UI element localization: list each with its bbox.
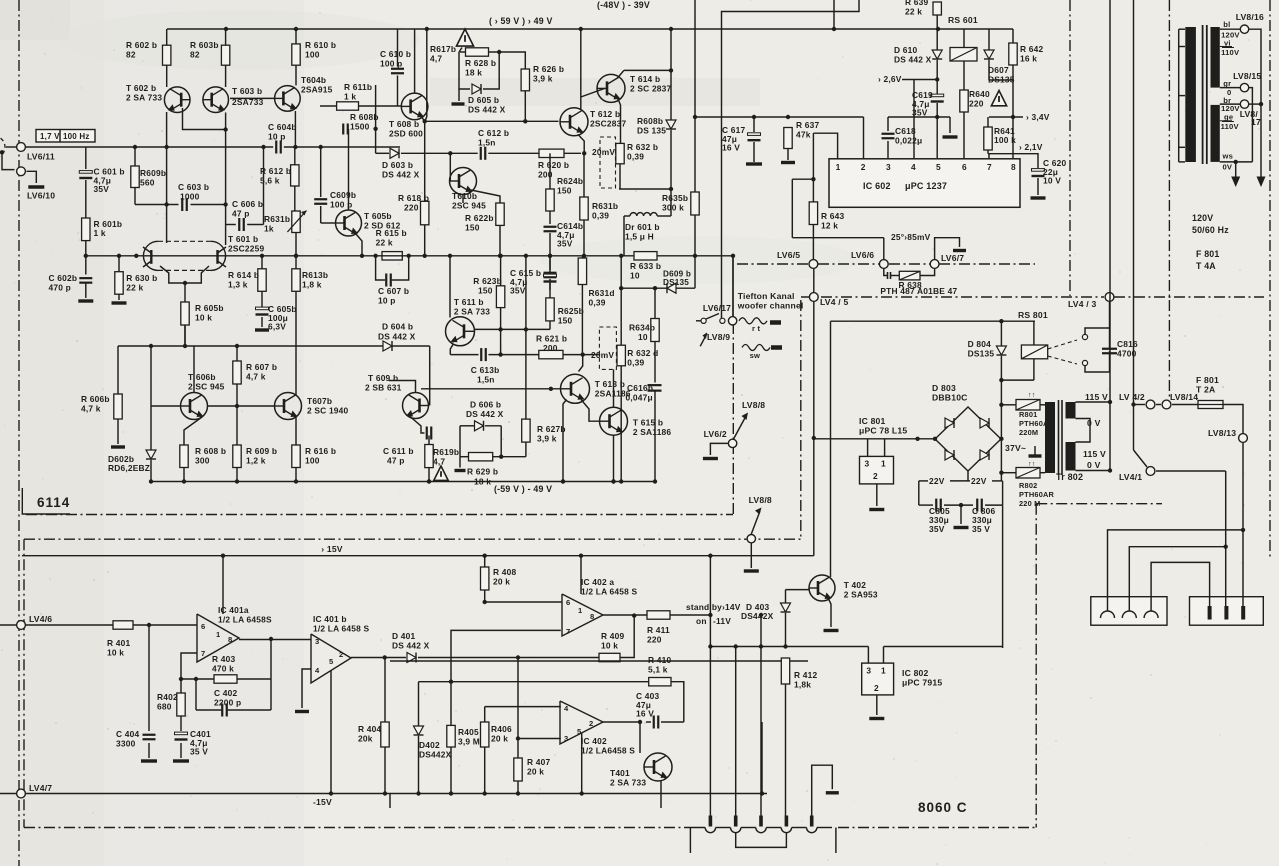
svg-text:T 602 b: T 602 b: [126, 83, 156, 93]
svg-text:110V: 110V: [1221, 122, 1240, 131]
svg-text:R 603b: R 603b: [190, 40, 219, 50]
svg-text:R 609 b: R 609 b: [246, 446, 277, 456]
svg-text:D 804: D 804: [968, 339, 991, 349]
svg-text:r t: r t: [752, 324, 760, 333]
svg-text:› 2,6V: › 2,6V: [878, 74, 902, 84]
svg-text:8: 8: [1011, 162, 1016, 172]
svg-text:T 615 b: T 615 b: [633, 418, 663, 428]
svg-text:R 628 b: R 628 b: [465, 58, 496, 68]
svg-text:2 SA 733: 2 SA 733: [610, 778, 646, 788]
svg-text:5,1 k: 5,1 k: [648, 665, 668, 675]
svg-text:680: 680: [157, 702, 172, 712]
svg-text:DBB10C: DBB10C: [932, 393, 968, 403]
svg-text:stand by›14V: stand by›14V: [686, 602, 741, 612]
svg-text:R 615 b: R 615 b: [376, 228, 407, 238]
svg-text:22V: 22V: [971, 476, 987, 486]
svg-text:1,8 k: 1,8 k: [302, 280, 322, 290]
svg-text:3: 3: [564, 734, 568, 743]
svg-text:R 623b: R 623b: [473, 276, 502, 286]
svg-text:220 M: 220 M: [1019, 499, 1041, 508]
svg-text:R625b: R625b: [558, 306, 584, 316]
svg-text:10 p: 10 p: [378, 296, 396, 306]
svg-text:RS 801: RS 801: [1018, 310, 1048, 320]
svg-text:300: 300: [195, 456, 210, 466]
svg-text:R 614 b: R 614 b: [228, 270, 259, 280]
svg-text:6: 6: [962, 162, 967, 172]
svg-text:F 801: F 801: [1196, 375, 1219, 385]
svg-text:2: 2: [589, 719, 593, 728]
svg-text:C 602b: C 602b: [49, 273, 78, 283]
svg-text:bl: bl: [1223, 20, 1230, 29]
svg-text:T 606b: T 606b: [188, 372, 216, 382]
svg-text:› 3,4V: › 3,4V: [1026, 112, 1050, 122]
svg-text:R 410: R 410: [648, 655, 671, 665]
svg-text:DS 442 X: DS 442 X: [466, 409, 504, 419]
svg-text:( › 59 V ) › 49 V: ( › 59 V ) › 49 V: [489, 16, 553, 26]
svg-text:2: 2: [873, 471, 878, 481]
svg-text:LV 4/2: LV 4/2: [1119, 392, 1145, 402]
svg-text:115 V: 115 V: [1083, 449, 1106, 459]
svg-text:LV8/14: LV8/14: [1170, 392, 1198, 402]
svg-text:R640: R640: [969, 89, 990, 99]
svg-text:C616b: C616b: [627, 383, 653, 393]
svg-text:C 611 b: C 611 b: [383, 446, 414, 456]
svg-text:R 610 b: R 610 b: [305, 40, 336, 50]
svg-text:R 404: R 404: [358, 724, 381, 734]
svg-text:2SA915: 2SA915: [301, 85, 333, 95]
svg-text:10 p: 10 p: [268, 132, 286, 142]
svg-text:82: 82: [126, 50, 136, 60]
svg-text:R 412: R 412: [794, 670, 817, 680]
svg-text:R613b: R613b: [302, 270, 328, 280]
svg-text:C 607 b: C 607 b: [378, 286, 409, 296]
svg-text:-11V: -11V: [713, 616, 731, 626]
svg-text:50/60 Hz: 50/60 Hz: [1192, 225, 1229, 235]
svg-text:1000: 1000: [180, 192, 200, 202]
svg-text:R 608 b: R 608 b: [195, 446, 226, 456]
svg-text:T610b: T610b: [452, 191, 477, 201]
svg-text:1/2 LA 6458S: 1/2 LA 6458S: [218, 615, 272, 625]
svg-text:0,39: 0,39: [627, 358, 644, 368]
svg-text:470 p: 470 p: [49, 283, 71, 293]
svg-text:T401: T401: [610, 768, 630, 778]
svg-text:R608b: R608b: [637, 116, 663, 126]
svg-text:LV8/15: LV8/15: [1233, 71, 1261, 81]
svg-text:1500: 1500: [350, 122, 370, 132]
svg-text:woofer channel: woofer channel: [737, 301, 804, 311]
svg-text:3,9 M: 3,9 M: [458, 737, 480, 747]
svg-text:22 k: 22 k: [376, 238, 393, 248]
svg-text:D 606 b: D 606 b: [470, 400, 501, 410]
svg-text:220: 220: [404, 203, 419, 213]
svg-text:F 801: F 801: [1196, 249, 1220, 259]
svg-text:IC 402 a: IC 402 a: [581, 577, 614, 587]
svg-text:10 k: 10 k: [601, 641, 618, 651]
svg-text:R 626 b: R 626 b: [533, 64, 564, 74]
svg-text:-15V: -15V: [313, 797, 332, 807]
svg-text:R631b: R631b: [592, 201, 618, 211]
svg-text:22 k: 22 k: [905, 7, 922, 17]
svg-text:R 633 b: R 633 b: [630, 261, 661, 271]
svg-text:LV8/8: LV8/8: [742, 400, 765, 410]
svg-text:R 612 b: R 612 b: [260, 166, 291, 176]
svg-text:μPC 78 L15: μPC 78 L15: [859, 426, 907, 436]
svg-text:DS442X: DS442X: [741, 611, 774, 621]
svg-text:1,8k: 1,8k: [794, 680, 811, 690]
svg-text:3300: 3300: [116, 739, 136, 749]
svg-text:LV6/6: LV6/6: [851, 250, 874, 260]
svg-text:D 604 b: D 604 b: [382, 322, 413, 332]
svg-text:37V~: 37V~: [1005, 443, 1026, 453]
svg-text:DS442X: DS442X: [419, 750, 452, 760]
svg-text:22V: 22V: [929, 476, 945, 486]
svg-text:4,7: 4,7: [433, 457, 445, 467]
svg-text:5: 5: [329, 657, 334, 666]
svg-text:20mV: 20mV: [591, 350, 614, 360]
svg-text:4,7 k: 4,7 k: [246, 372, 266, 382]
svg-text:8: 8: [590, 612, 594, 621]
svg-text:2 SC 2837: 2 SC 2837: [630, 84, 672, 94]
svg-text:D 803: D 803: [932, 383, 956, 393]
svg-text:150: 150: [558, 316, 573, 326]
svg-text:115 V: 115 V: [1085, 392, 1108, 402]
svg-text:4: 4: [315, 666, 320, 675]
svg-text:R406: R406: [491, 724, 512, 734]
svg-text:1,3 k: 1,3 k: [228, 280, 248, 290]
svg-text:R 643: R 643: [821, 211, 844, 221]
svg-text:LV8/8: LV8/8: [749, 495, 772, 505]
svg-text:1,5n: 1,5n: [477, 375, 495, 385]
svg-text:1: 1: [836, 162, 841, 172]
svg-text:LV4 / 5: LV4 / 5: [820, 297, 848, 307]
svg-text:8060 C: 8060 C: [918, 800, 968, 815]
svg-text:1,5 μ H: 1,5 μ H: [625, 232, 654, 242]
svg-text:22 k: 22 k: [126, 283, 143, 293]
svg-text:0,39: 0,39: [627, 152, 644, 162]
svg-text:2: 2: [874, 683, 879, 693]
svg-text:LV8/13: LV8/13: [1208, 428, 1236, 438]
svg-text:R 637: R 637: [796, 120, 819, 130]
svg-text:D 401: D 401: [392, 631, 415, 641]
svg-text:T 603 b: T 603 b: [232, 86, 262, 96]
svg-text:2SD 600: 2SD 600: [389, 129, 423, 139]
svg-text:4: 4: [564, 704, 569, 713]
svg-text:7: 7: [201, 649, 205, 658]
svg-text:R 605b: R 605b: [195, 303, 224, 313]
svg-text:560: 560: [140, 178, 155, 188]
svg-text:0V: 0V: [1223, 163, 1233, 172]
svg-text:R 407: R 407: [527, 757, 550, 767]
svg-text:35V: 35V: [912, 108, 928, 118]
svg-text:› 2,1V: › 2,1V: [1019, 142, 1043, 152]
svg-text:› 15V: › 15V: [321, 544, 343, 554]
svg-text:LV4/6: LV4/6: [29, 614, 52, 624]
svg-text:47 p: 47 p: [232, 209, 250, 219]
svg-text:DS135: DS135: [968, 349, 995, 359]
svg-text:150: 150: [478, 286, 493, 296]
svg-text:IC 801: IC 801: [859, 416, 886, 426]
svg-text:DS135: DS135: [988, 75, 1015, 85]
svg-text:R635b: R635b: [662, 193, 688, 203]
svg-text:T 4A: T 4A: [1196, 261, 1216, 271]
svg-text:R 620 b: R 620 b: [538, 160, 569, 170]
svg-text:220M: 220M: [1019, 428, 1038, 437]
svg-text:3,9 k: 3,9 k: [537, 434, 557, 444]
svg-text:R 611b: R 611b: [344, 82, 372, 92]
svg-text:10 V: 10 V: [1043, 176, 1061, 186]
svg-text:T 609 b: T 609 b: [368, 373, 398, 383]
svg-text:LV4/7: LV4/7: [29, 783, 52, 793]
svg-text:6,3V: 6,3V: [268, 322, 286, 332]
svg-text:300 k: 300 k: [662, 203, 684, 213]
svg-text:10: 10: [630, 271, 640, 281]
svg-text:IC 802: IC 802: [902, 668, 929, 678]
svg-text:Tr 802: Tr 802: [1056, 472, 1083, 482]
svg-text:2SC2259: 2SC2259: [228, 244, 264, 254]
svg-text:1: 1: [578, 606, 583, 615]
svg-text:on: on: [696, 616, 707, 626]
svg-text:DS135: DS135: [663, 278, 689, 287]
svg-text:6: 6: [566, 598, 570, 607]
svg-text:4: 4: [911, 162, 916, 172]
svg-text:R631d: R631d: [589, 288, 615, 298]
svg-text:1,5n: 1,5n: [478, 138, 496, 148]
svg-text:DS 442 X: DS 442 X: [468, 105, 506, 115]
svg-text:47k: 47k: [796, 130, 811, 140]
svg-text:C816: C816: [1117, 339, 1138, 349]
svg-text:R 401: R 401: [107, 638, 130, 648]
svg-text:17: 17: [1251, 117, 1261, 127]
svg-text:C 612 b: C 612 b: [478, 128, 509, 138]
svg-text:C609b: C609b: [330, 190, 356, 200]
svg-text:16 k: 16 k: [1020, 54, 1037, 64]
svg-text:1: 1: [881, 459, 886, 469]
svg-text:R617b: R617b: [430, 44, 456, 54]
svg-text:220: 220: [647, 635, 662, 645]
svg-text:2 SB 631: 2 SB 631: [365, 383, 402, 393]
svg-text:C 604b: C 604b: [268, 122, 297, 132]
svg-text:LV6/5: LV6/5: [777, 250, 800, 260]
svg-text:220: 220: [969, 99, 984, 109]
svg-text:R 411: R 411: [647, 625, 670, 635]
svg-text:2SC 945: 2SC 945: [452, 201, 486, 211]
svg-text:↑↑: ↑↑: [1028, 461, 1035, 468]
svg-text:20mV: 20mV: [592, 147, 615, 157]
svg-text:μPC 1237: μPC 1237: [905, 181, 947, 191]
svg-text:D402: D402: [419, 740, 440, 750]
svg-text:R405: R405: [458, 727, 479, 737]
svg-text:C 610 b: C 610 b: [380, 49, 411, 59]
svg-text:7: 7: [987, 162, 992, 172]
svg-text:μPC 7915: μPC 7915: [902, 678, 942, 688]
svg-text:35V: 35V: [557, 239, 573, 249]
svg-text:16 V: 16 V: [722, 143, 740, 153]
svg-text:1,2 k: 1,2 k: [246, 456, 266, 466]
svg-text:D 605 b: D 605 b: [468, 95, 499, 105]
svg-text:2: 2: [339, 650, 343, 659]
svg-text:2 SA1186: 2 SA1186: [633, 427, 672, 437]
svg-text:RS 601: RS 601: [948, 15, 978, 25]
svg-text:Tiefton Kanal: Tiefton Kanal: [738, 291, 795, 301]
svg-text:T 611 b: T 611 b: [454, 297, 484, 307]
svg-text:1: 1: [216, 630, 221, 639]
svg-text:1k: 1k: [264, 224, 274, 234]
svg-text:ge: ge: [1224, 113, 1233, 122]
svg-text:100 Hz: 100 Hz: [63, 132, 90, 141]
svg-text:0,39: 0,39: [592, 211, 609, 221]
svg-text:LV6/11: LV6/11: [27, 152, 55, 162]
svg-text:R631b: R631b: [264, 214, 290, 224]
svg-text:D 610: D 610: [894, 45, 917, 55]
svg-text:T 2A: T 2A: [1196, 385, 1215, 395]
svg-text:R 629 b: R 629 b: [467, 467, 498, 477]
svg-text:10 k: 10 k: [107, 648, 124, 658]
svg-text:0,39: 0,39: [589, 298, 606, 308]
svg-text:0 V: 0 V: [1087, 460, 1101, 470]
svg-text:20 k: 20 k: [493, 577, 510, 587]
svg-text:C 606 b: C 606 b: [232, 199, 263, 209]
svg-text:LV8/9: LV8/9: [707, 332, 730, 342]
svg-text:1 k: 1 k: [344, 92, 356, 102]
svg-text:20 k: 20 k: [527, 767, 544, 777]
svg-text:R801: R801: [1019, 410, 1037, 419]
svg-text:120V: 120V: [1192, 213, 1213, 223]
svg-text:LV6/7: LV6/7: [941, 253, 964, 263]
svg-text:IC 401 b: IC 401 b: [313, 614, 347, 624]
svg-text:110V: 110V: [1221, 48, 1240, 57]
svg-text:47 p: 47 p: [387, 456, 405, 466]
svg-text:2 SA 733: 2 SA 733: [126, 93, 162, 103]
svg-text:200: 200: [543, 343, 558, 353]
svg-text:R624b: R624b: [557, 176, 583, 186]
svg-text:PTH 487 A01BE 47: PTH 487 A01BE 47: [880, 286, 957, 296]
svg-text:20k: 20k: [358, 734, 373, 744]
svg-text:100: 100: [305, 50, 320, 60]
svg-text:100: 100: [305, 456, 320, 466]
svg-text:R 642: R 642: [1020, 44, 1043, 54]
svg-text:150: 150: [465, 223, 480, 233]
svg-text:R 632 b: R 632 b: [627, 142, 658, 152]
svg-text:7: 7: [566, 627, 570, 636]
svg-text:1/2 LA 6458 S: 1/2 LA 6458 S: [581, 587, 638, 597]
svg-text:LV6/17: LV6/17: [703, 303, 731, 313]
svg-text:DS 442 X: DS 442 X: [378, 332, 416, 342]
svg-text:6114: 6114: [37, 495, 70, 510]
svg-text:R 632 d: R 632 d: [627, 348, 658, 358]
svg-text:3: 3: [866, 666, 871, 676]
svg-text:2 SA953: 2 SA953: [844, 590, 878, 600]
svg-text:1/2 LA6458 S: 1/2 LA6458 S: [581, 746, 635, 756]
svg-text:5,6 k: 5,6 k: [260, 176, 280, 186]
svg-text:RD6,2EBZ: RD6,2EBZ: [108, 463, 150, 473]
svg-text:4,7: 4,7: [430, 54, 442, 64]
svg-text:ws: ws: [1222, 152, 1234, 161]
svg-text:C 402: C 402: [214, 688, 237, 698]
svg-text:3,9 k: 3,9 k: [533, 74, 553, 84]
svg-text:R 602 b: R 602 b: [126, 40, 157, 50]
svg-text:C 613b: C 613b: [471, 365, 500, 375]
svg-text:1/2 LA 6458 S: 1/2 LA 6458 S: [313, 624, 370, 634]
svg-text:470 k: 470 k: [212, 664, 234, 674]
svg-text:2 SA 733: 2 SA 733: [454, 307, 490, 317]
svg-text:DS 135: DS 135: [637, 126, 666, 136]
svg-text:R 627b: R 627b: [537, 424, 566, 434]
svg-text:T 613 b: T 613 b: [595, 379, 625, 389]
svg-text:LV6/2: LV6/2: [704, 429, 727, 439]
svg-text:10 k: 10 k: [195, 313, 212, 323]
svg-text:35V: 35V: [929, 524, 945, 534]
svg-text:82: 82: [190, 50, 200, 60]
svg-text:D 603 b: D 603 b: [382, 160, 413, 170]
svg-text:T 608 b: T 608 b: [389, 119, 419, 129]
svg-text:gr: gr: [1223, 79, 1231, 88]
svg-text:3: 3: [886, 162, 891, 172]
svg-text:8: 8: [228, 635, 232, 644]
svg-text:0,022μ: 0,022μ: [895, 136, 922, 146]
svg-text:35V: 35V: [510, 286, 526, 296]
svg-text:IC 602: IC 602: [863, 181, 891, 191]
svg-text:R 606b: R 606b: [81, 394, 110, 404]
svg-text:R 409: R 409: [601, 631, 624, 641]
svg-text:R 630 b: R 630 b: [126, 273, 157, 283]
svg-text:DS 442 X: DS 442 X: [894, 55, 932, 65]
svg-text:100 p: 100 p: [380, 59, 402, 69]
svg-text:R802: R802: [1019, 481, 1037, 490]
svg-text:18 k: 18 k: [465, 68, 482, 78]
svg-text:LV4 / 3: LV4 / 3: [1068, 299, 1096, 309]
svg-text:(-59 V ) - 49 V: (-59 V ) - 49 V: [494, 484, 552, 494]
svg-text:IC 402: IC 402: [581, 736, 607, 746]
svg-text:1: 1: [881, 666, 886, 676]
svg-text:R 607 b: R 607 b: [246, 362, 277, 372]
svg-text:T 402: T 402: [844, 580, 867, 590]
svg-text:35 V: 35 V: [190, 747, 208, 757]
svg-text:LV8/16: LV8/16: [1236, 12, 1264, 22]
svg-text:16 V: 16 V: [636, 709, 654, 719]
svg-text:LV4/1: LV4/1: [1119, 472, 1142, 482]
svg-text:C 603 b: C 603 b: [178, 182, 209, 192]
svg-text:PTH60AR: PTH60AR: [1019, 490, 1055, 499]
svg-text:2 SC 1940: 2 SC 1940: [307, 406, 349, 416]
svg-text:DS 442 X: DS 442 X: [382, 170, 420, 180]
svg-text:T607b: T607b: [307, 396, 332, 406]
svg-text:C618: C618: [895, 126, 916, 136]
svg-text:R 618 b: R 618 b: [398, 193, 429, 203]
svg-text:2200 p: 2200 p: [214, 698, 241, 708]
svg-text:1 k: 1 k: [94, 228, 106, 238]
svg-text:6: 6: [201, 622, 205, 631]
svg-text:R619b: R619b: [433, 447, 459, 457]
svg-text:R 408: R 408: [493, 567, 516, 577]
svg-text:R609b: R609b: [140, 168, 166, 178]
svg-text:C 404: C 404: [116, 729, 139, 739]
svg-text:20 k: 20 k: [491, 734, 508, 744]
svg-text:150: 150: [557, 186, 572, 196]
svg-text:1,7 V: 1,7 V: [40, 132, 60, 141]
svg-text:R402: R402: [157, 692, 178, 702]
svg-text:(-48V ) - 39V: (-48V ) - 39V: [597, 0, 650, 10]
svg-text:R634b: R634b: [629, 323, 655, 333]
svg-text:2: 2: [861, 162, 866, 172]
svg-text:R 621 b: R 621 b: [536, 334, 567, 344]
svg-text:3: 3: [315, 637, 319, 646]
svg-text:0 V: 0 V: [1087, 418, 1101, 428]
svg-text:35 V: 35 V: [972, 524, 990, 534]
svg-text:T 612 b: T 612 b: [590, 109, 620, 119]
svg-text:DS 442 X: DS 442 X: [392, 641, 430, 651]
svg-text:Dr 601 b: Dr 601 b: [625, 222, 660, 232]
svg-text:3: 3: [865, 459, 870, 469]
